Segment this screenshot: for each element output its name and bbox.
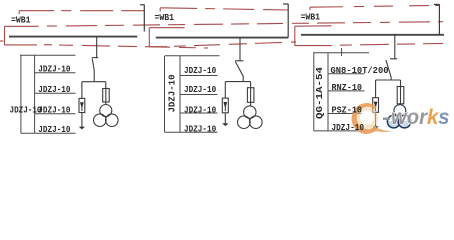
- svg-text:JDZJ-10: JDZJ-10: [167, 74, 178, 112]
- svg-text:PSZ-10: PSZ-10: [332, 105, 363, 116]
- svg-text:works: works: [391, 106, 450, 129]
- svg-text:JDZJ-10: JDZJ-10: [184, 123, 216, 134]
- svg-text:JDZJ-10: JDZJ-10: [38, 63, 70, 74]
- svg-text:=WB1: =WB1: [155, 12, 175, 23]
- svg-text:=WB1: =WB1: [301, 11, 321, 22]
- svg-text:JDZJ-10: JDZJ-10: [38, 124, 70, 135]
- svg-text:JDZJ-10: JDZJ-10: [184, 84, 216, 95]
- svg-text:=WB1: =WB1: [11, 14, 31, 25]
- svg-text:GN8-10T/200: GN8-10T/200: [331, 65, 389, 76]
- svg-text:JDZJ-10: JDZJ-10: [38, 104, 70, 115]
- svg-text:JDZJ-10: JDZJ-10: [10, 104, 42, 115]
- svg-text:RNZ-10: RNZ-10: [332, 82, 363, 93]
- svg-text:QG-1A-54: QG-1A-54: [314, 67, 325, 119]
- svg-text:JDZJ-10: JDZJ-10: [38, 84, 70, 95]
- svg-text:JDZJ-10: JDZJ-10: [184, 105, 216, 116]
- svg-text:JDZJ-10: JDZJ-10: [332, 122, 365, 133]
- svg-text:JDZJ-10: JDZJ-10: [184, 65, 216, 76]
